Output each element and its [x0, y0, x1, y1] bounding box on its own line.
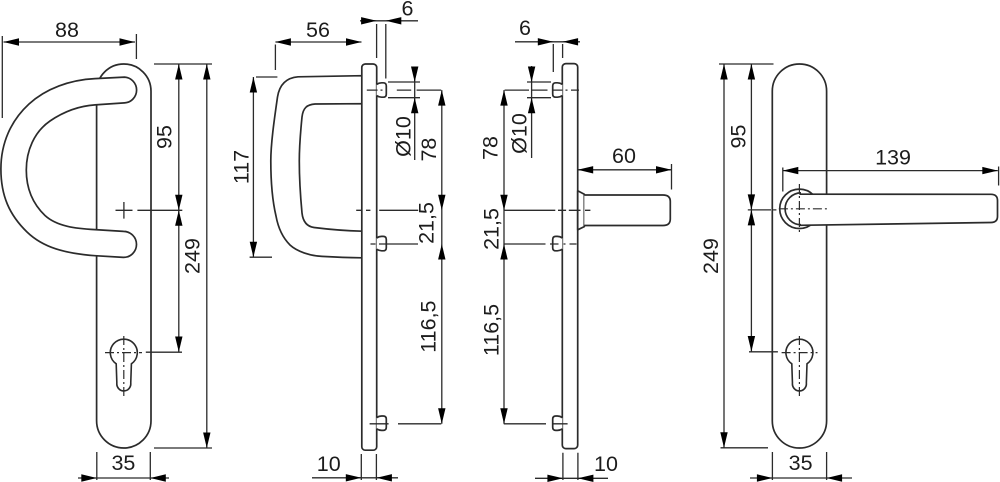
svg-text:95: 95: [727, 125, 751, 149]
svg-text:6: 6: [402, 0, 414, 21]
svg-text:21,5: 21,5: [479, 208, 503, 250]
svg-text:117: 117: [230, 150, 254, 184]
svg-text:78: 78: [417, 138, 441, 162]
svg-text:35: 35: [789, 451, 813, 475]
svg-text:116,5: 116,5: [417, 300, 441, 352]
svg-text:Ø10: Ø10: [392, 116, 416, 157]
svg-text:60: 60: [612, 144, 636, 168]
svg-text:10: 10: [317, 452, 341, 476]
svg-text:10: 10: [594, 452, 618, 476]
svg-text:78: 78: [479, 136, 503, 160]
svg-text:95: 95: [153, 125, 177, 149]
svg-text:56: 56: [306, 18, 330, 42]
svg-text:Ø10: Ø10: [508, 113, 532, 154]
svg-text:139: 139: [875, 146, 911, 170]
svg-text:249: 249: [699, 238, 723, 274]
svg-text:249: 249: [181, 238, 205, 274]
svg-text:116,5: 116,5: [479, 304, 503, 356]
svg-text:21,5: 21,5: [415, 202, 439, 244]
svg-text:35: 35: [111, 451, 135, 475]
svg-text:6: 6: [519, 16, 531, 40]
svg-text:88: 88: [55, 18, 79, 42]
